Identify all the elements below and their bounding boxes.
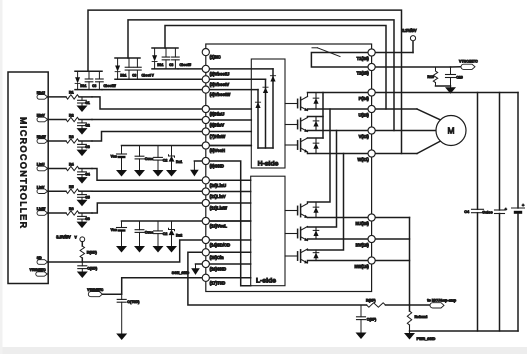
net tag HinW (MCU PWM output 3) bbox=[37, 139, 48, 144]
svg-text:R(SF): R(SF) bbox=[366, 299, 376, 303]
ground (C(SF)) bbox=[356, 333, 367, 340]
ground bbox=[153, 170, 164, 177]
svg-text:(16)GND: (16)GND bbox=[210, 267, 227, 272]
capacitor C3 bbox=[81, 141, 83, 144]
svg-text:Vcc: Vcc bbox=[111, 154, 117, 158]
svg-text:(15)Cin: (15)Cin bbox=[210, 255, 225, 260]
diode Db1 (V) bbox=[117, 58, 119, 65]
wire Q2/Q3 collector riser bbox=[322, 93, 324, 139]
wire row 3 to pin bbox=[92, 132, 206, 142]
pin (13)VccL bbox=[202, 217, 209, 224]
net tag HinU (MCU PWM output 1) bbox=[37, 95, 48, 100]
wire NW line bbox=[308, 260, 410, 262]
microcontroller U2 bbox=[8, 72, 48, 284]
wire P bus (right of pin) bbox=[372, 92, 518, 94]
wire U phase line bbox=[308, 108, 418, 110]
resistor R(SD) bbox=[80, 246, 84, 258]
pin (3)VbootV bbox=[202, 76, 209, 83]
capacitor CbootU bbox=[174, 48, 176, 57]
capacitor C10 bbox=[450, 67, 452, 75]
svg-text:Rshunt: Rshunt bbox=[415, 315, 428, 319]
svg-text:C2: C2 bbox=[85, 124, 90, 128]
svg-text:HinW: HinW bbox=[37, 135, 47, 139]
svg-text:HinV: HinV bbox=[37, 114, 46, 118]
capacitor Celco (electrolytic) bbox=[499, 93, 501, 211]
bootstrap diode DbootV (internal) bbox=[265, 79, 267, 148]
svg-text:C3: C3 bbox=[85, 145, 90, 149]
wire row 5 to pin bbox=[92, 190, 206, 192]
ground SGN_GND (pin9) bbox=[193, 161, 195, 170]
bootstrap diode DbootU (internal) bbox=[272, 69, 274, 148]
svg-text:C(SD): C(SD) bbox=[87, 267, 98, 271]
ground bbox=[116, 246, 127, 253]
pin (8)VccH bbox=[202, 142, 209, 149]
battery VDC bbox=[517, 93, 519, 209]
ground bbox=[116, 170, 127, 177]
svg-text:MICROCONTROLLER: MICROCONTROLLER bbox=[19, 117, 29, 228]
svg-text:(5)HinU: (5)HinU bbox=[210, 112, 225, 117]
diode Db1 (W) bbox=[77, 71, 79, 77]
svg-text:NU(20): NU(20) bbox=[355, 221, 369, 226]
svg-text:H-side: H-side bbox=[258, 160, 279, 167]
capacitor C2 bbox=[81, 120, 83, 123]
supply terminal 3.3V/5V (top) bbox=[372, 52, 413, 54]
svg-text:C4: C4 bbox=[464, 210, 470, 214]
pin W(21) bbox=[368, 150, 375, 157]
wire motor U lead bbox=[417, 109, 440, 120]
wire pin3 VbootV bbox=[140, 78, 266, 80]
ground bbox=[166, 246, 177, 253]
svg-text:to MCU&op-amp: to MCU&op-amp bbox=[427, 299, 457, 303]
pin P(24) bbox=[368, 89, 375, 96]
svg-text:C(TSD): C(TSD) bbox=[127, 300, 140, 304]
pin (16)GND bbox=[202, 260, 209, 267]
svg-text:C6: C6 bbox=[85, 217, 90, 221]
svg-text:C3: C3 bbox=[169, 63, 173, 67]
svg-text:NV(19): NV(19) bbox=[356, 242, 370, 247]
wire row 5 from MCU bbox=[48, 190, 66, 192]
svg-text:C5: C5 bbox=[85, 195, 90, 199]
svg-text:(14)SD/OD: (14)SD/OD bbox=[210, 243, 230, 248]
wire row 3 from MCU bbox=[48, 140, 66, 142]
capacitor C6 bbox=[81, 213, 83, 216]
svg-text:Dz1: Dz1 bbox=[176, 160, 182, 164]
L-side driver block bbox=[251, 176, 285, 286]
svg-text:Db1: Db1 bbox=[80, 84, 86, 88]
capacitor C(SD) bbox=[81, 262, 83, 266]
wire motor W lead bbox=[417, 141, 440, 153]
svg-text:Cvcc: Cvcc bbox=[145, 157, 153, 161]
svg-text:C10: C10 bbox=[456, 76, 463, 80]
resistor R3 bbox=[66, 139, 79, 143]
ground (row 6 filter) bbox=[77, 222, 88, 229]
svg-text:P(24): P(24) bbox=[359, 96, 370, 101]
wire NV line bbox=[308, 238, 410, 240]
pin (1)NC bbox=[202, 49, 209, 56]
resistor R(SF) bbox=[367, 303, 386, 307]
pin T2(25) bbox=[368, 63, 375, 70]
motor M bbox=[436, 116, 466, 146]
svg-text:(1)NC: (1)NC bbox=[210, 55, 221, 60]
capacitor CbootV bbox=[136, 58, 138, 67]
pin (2)VbootU bbox=[202, 65, 209, 72]
svg-text:HinU: HinU bbox=[37, 91, 46, 95]
wire pin 15 Cin to sense filter bbox=[188, 252, 367, 305]
capacitor C1 bbox=[81, 97, 83, 100]
wire row 4 from MCU bbox=[48, 168, 66, 170]
pin (15)Cin bbox=[202, 249, 209, 256]
ground (row 1 filter) bbox=[77, 106, 88, 113]
wire U riser to Q4 bbox=[308, 109, 331, 202]
capacitor C3 (W) bbox=[88, 71, 90, 79]
resistor R1 bbox=[66, 95, 79, 99]
svg-text:(9)GND: (9)GND bbox=[210, 164, 224, 169]
wire VccH rail from pin 8 bbox=[122, 145, 252, 147]
svg-text:LinV: LinV bbox=[37, 185, 45, 189]
wire pin12 LinW bbox=[206, 202, 251, 204]
capacitor Cvcc bbox=[139, 221, 141, 230]
svg-text:(7)HinW: (7)HinW bbox=[210, 134, 226, 139]
wire row 6 to pin bbox=[92, 203, 206, 213]
ground (row 3 filter) bbox=[77, 150, 88, 157]
wire VccL rail from pin 13 bbox=[122, 220, 251, 222]
wire row 6 from MCU bbox=[48, 212, 66, 214]
bootstrap group V: rails bbox=[115, 57, 140, 59]
svg-text:(13)VccL: (13)VccL bbox=[210, 224, 228, 229]
net tag SD (MCU) bbox=[37, 260, 48, 265]
wire row 3 to filter cap bbox=[79, 140, 92, 142]
wire W riser to Q6 bbox=[308, 154, 344, 251]
pin (11)LinV bbox=[202, 188, 209, 195]
pin NU(20) bbox=[368, 214, 375, 221]
svg-text:M: M bbox=[448, 126, 455, 136]
IGBT Q2 (high-side V) bbox=[285, 117, 319, 132]
zener diode Dz1 bbox=[171, 146, 173, 157]
svg-text:R1: R1 bbox=[69, 91, 74, 95]
svg-text:CbootU: CbootU bbox=[180, 63, 192, 67]
IC package outline bbox=[206, 44, 372, 292]
wire bootstrap bus U (top) bbox=[165, 26, 386, 110]
resistor R4 bbox=[66, 166, 79, 170]
pin (7)HinW bbox=[202, 128, 209, 135]
svg-text:Dz2: Dz2 bbox=[176, 234, 182, 238]
wire NU/NV/NW bus to shunt bbox=[409, 218, 411, 312]
svg-text:(12)LinW: (12)LinW bbox=[210, 206, 228, 211]
IGBT Q5 (low-side V) bbox=[285, 227, 319, 241]
wire row 2 to filter cap bbox=[79, 119, 92, 121]
capacitor C3 (U) bbox=[165, 48, 167, 57]
wire T2 to R10/C10 bbox=[372, 66, 451, 68]
net tag to MCU&op-amp bbox=[410, 304, 431, 306]
wire pin10 LinU bbox=[206, 179, 251, 181]
ground bbox=[166, 170, 177, 177]
resistor R2 bbox=[66, 117, 79, 121]
wire row 6 to filter cap bbox=[79, 212, 92, 214]
wire bootstrap bus W (top) bbox=[88, 10, 402, 153]
wire 3.3V to R(SD) bbox=[81, 242, 83, 246]
svg-text:R2: R2 bbox=[69, 113, 74, 117]
svg-text:(10)LinU: (10)LinU bbox=[210, 183, 227, 188]
wire pin9 GND to L-side bbox=[194, 161, 250, 286]
svg-text:VTSO/NTC: VTSO/NTC bbox=[459, 60, 478, 64]
ground PWR_GND bbox=[404, 333, 415, 340]
ground bbox=[134, 246, 145, 253]
wire bootstrap bus V (top) bbox=[128, 20, 394, 131]
wire row 1 from MCU bbox=[48, 96, 66, 98]
wire R10/C10 bottom rail bbox=[436, 85, 451, 87]
wire T1 loop bbox=[311, 53, 368, 68]
IGBT Q6 (low-side W) bbox=[285, 249, 319, 263]
wire V riser to Q5 bbox=[308, 131, 337, 228]
net tag HinV (MCU PWM output 2) bbox=[37, 117, 48, 122]
ground (row 2 filter) bbox=[77, 128, 88, 135]
IGBT Q3 (high-side W) bbox=[285, 138, 319, 154]
wire row 1 to filter cap bbox=[79, 96, 92, 98]
svg-text:C2: C2 bbox=[163, 232, 168, 236]
wire R(SF) to shunt node bbox=[386, 304, 410, 306]
ground (row 5 filter) bbox=[77, 200, 88, 207]
wire W phase line bbox=[308, 153, 418, 155]
wire pin4 VbootW bbox=[102, 89, 258, 91]
IGBT Q1 (high-side U) bbox=[285, 93, 319, 111]
pin (10)LinU bbox=[202, 177, 209, 184]
svg-text:SD: SD bbox=[37, 256, 42, 260]
svg-text:T2(25): T2(25) bbox=[357, 70, 370, 75]
svg-text:L-side: L-side bbox=[256, 278, 276, 285]
svg-text:R10: R10 bbox=[427, 75, 434, 79]
svg-text:Db1: Db1 bbox=[120, 74, 126, 78]
wire row 4 to pin bbox=[92, 169, 206, 181]
capacitor C(TSD) bbox=[121, 294, 123, 299]
svg-text:Cboot V: Cboot V bbox=[142, 74, 155, 78]
capacitor CbootW bbox=[98, 71, 100, 79]
svg-text:SGN_GND: SGN_GND bbox=[172, 271, 190, 275]
pin (6)HinV bbox=[202, 116, 209, 123]
capacitor C(SF) bbox=[360, 305, 362, 317]
bootstrap diode DbootW (internal) bbox=[257, 90, 259, 148]
resistor R5 bbox=[66, 189, 79, 193]
net tag LinU (MCU PWM output 4) bbox=[37, 166, 48, 171]
wire pin16 GND bbox=[196, 263, 251, 265]
net tag LinW (MCU PWM output 6) bbox=[37, 211, 48, 216]
svg-text:3.3V/5V: 3.3V/5V bbox=[402, 28, 417, 33]
pin U(23) bbox=[368, 105, 375, 112]
pin NV(19) bbox=[368, 235, 375, 242]
capacitor Vcc (electrolytic) bbox=[121, 146, 123, 155]
wire pin8 VccH bbox=[206, 145, 252, 147]
svg-text:C3: C3 bbox=[92, 84, 96, 88]
wire tag to CTSD node bbox=[102, 293, 121, 295]
svg-text:LinU: LinU bbox=[37, 163, 45, 167]
thermistor (internal NTC) bbox=[312, 47, 318, 49]
resistor Rshunt bbox=[407, 311, 411, 325]
svg-text:(11)LinV: (11)LinV bbox=[210, 194, 226, 199]
diode Db1 (U) bbox=[154, 48, 156, 55]
svg-text:+: + bbox=[505, 207, 508, 211]
pin (17)TSD bbox=[202, 274, 209, 281]
svg-text:Vcc: Vcc bbox=[111, 228, 117, 232]
pin (5)HinU bbox=[202, 105, 209, 112]
wire pin13 VccL bbox=[206, 220, 251, 222]
zener diode Dz2 bbox=[171, 221, 173, 230]
svg-text:R6: R6 bbox=[69, 207, 74, 211]
svg-text:VTSD/NTC: VTSD/NTC bbox=[30, 268, 47, 272]
capacitor C2 bbox=[157, 146, 159, 158]
wire row 5 to filter cap bbox=[79, 190, 92, 192]
svg-text:+: + bbox=[522, 203, 525, 207]
pin V(22) bbox=[368, 127, 375, 134]
capacitor Cvcc bbox=[139, 146, 141, 157]
net tag VTSD/NTC (MCU analog input) bbox=[36, 272, 48, 276]
wire pin14 SD/OD bbox=[206, 239, 251, 241]
svg-text:(17)TSD: (17)TSD bbox=[210, 280, 226, 285]
svg-text:R(SD): R(SD) bbox=[87, 251, 98, 255]
svg-text:U(23): U(23) bbox=[358, 112, 369, 117]
svg-text:R5: R5 bbox=[69, 185, 74, 189]
svg-text:NW(18): NW(18) bbox=[355, 264, 370, 269]
wire power ground bus bbox=[410, 330, 519, 332]
svg-text:3.3V/5V: 3.3V/5V bbox=[56, 234, 71, 239]
wire SD net to pin 14 bbox=[48, 240, 206, 262]
bootstrap group W: rails bbox=[75, 70, 102, 72]
wire internal VccH join bbox=[258, 147, 273, 149]
svg-text:CbootW: CbootW bbox=[104, 84, 116, 88]
resistor R10 bbox=[435, 67, 437, 71]
wire pin7 HinW bbox=[206, 131, 252, 133]
svg-text:C1: C1 bbox=[85, 101, 90, 105]
svg-text:R3: R3 bbox=[69, 135, 74, 139]
pin (12)LinW bbox=[202, 199, 209, 206]
svg-text:Celco: Celco bbox=[482, 211, 493, 215]
svg-text:V(22): V(22) bbox=[359, 134, 370, 139]
ground (C(TSD)) bbox=[116, 334, 127, 341]
svg-text:R4: R4 bbox=[69, 162, 74, 166]
svg-text:T1(26): T1(26) bbox=[357, 56, 370, 61]
scan artifact bands bbox=[0, 347, 527, 354]
capacitor C4 bbox=[81, 169, 83, 172]
wire row 2 to pin bbox=[92, 119, 206, 121]
wire row 4 to filter cap bbox=[79, 168, 92, 170]
wire pin5 HinU bbox=[206, 108, 252, 110]
wire pin6 HinV bbox=[206, 119, 252, 121]
IGBT Q4 (low-side U) bbox=[285, 202, 319, 218]
svg-text:(3)VbootV: (3)VbootV bbox=[210, 82, 230, 87]
H-side driver block bbox=[251, 59, 285, 168]
capacitor C3 (V) bbox=[128, 58, 130, 67]
ground (row 4 filter) bbox=[77, 177, 88, 184]
svg-text:Cvcc: Cvcc bbox=[145, 231, 153, 235]
wire pin2 VbootU bbox=[178, 68, 273, 70]
svg-text:C2: C2 bbox=[163, 158, 168, 162]
svg-text:C4: C4 bbox=[85, 173, 90, 177]
pin T1(26) bbox=[368, 49, 375, 56]
wire NU line bbox=[308, 217, 410, 219]
ground (C10) bbox=[450, 86, 452, 87]
capacitor C5 bbox=[81, 191, 83, 194]
svg-text:(2)VbootU: (2)VbootU bbox=[210, 71, 230, 76]
net tag VTSO/NTC bbox=[451, 66, 462, 68]
wire P bus (left of pin) bbox=[308, 92, 372, 94]
svg-text:LinW: LinW bbox=[37, 207, 46, 211]
svg-text:C3: C3 bbox=[132, 74, 136, 78]
pin (9)GND bbox=[202, 157, 209, 164]
wire row 1 to pin bbox=[92, 97, 206, 109]
svg-text:PWR_GND: PWR_GND bbox=[417, 337, 436, 341]
resistor R6 bbox=[66, 211, 79, 215]
capacitor Vcc (electrolytic) bbox=[121, 221, 123, 228]
svg-text:V: V bbox=[75, 235, 78, 239]
ground (C(SD)) bbox=[77, 272, 88, 279]
svg-text:(6)HinV: (6)HinV bbox=[210, 123, 225, 128]
svg-text:(4)VbootW: (4)VbootW bbox=[210, 92, 231, 97]
svg-text:Db1: Db1 bbox=[157, 63, 163, 67]
ground SGN_GND (pin16) bbox=[195, 264, 197, 268]
capacitor C4 bbox=[477, 93, 479, 210]
svg-text:C(SF): C(SF) bbox=[367, 318, 377, 322]
pin (4)VbootW bbox=[202, 86, 209, 93]
pin NW(18) bbox=[368, 257, 375, 264]
wire R(SD) to SD net bbox=[81, 258, 83, 262]
pin (14)SD/OD bbox=[202, 236, 209, 243]
wire V phase line bbox=[308, 130, 437, 132]
wire row 2 from MCU bbox=[48, 119, 66, 121]
svg-text:(8)VccH: (8)VccH bbox=[210, 148, 225, 153]
wire pin11 LinV bbox=[206, 191, 251, 193]
net tag LinV (MCU PWM output 5) bbox=[37, 189, 48, 194]
ground bbox=[134, 170, 145, 177]
svg-text:W(21): W(21) bbox=[358, 157, 370, 162]
ground bbox=[153, 246, 164, 253]
wire CTSD node to pin 17 TSD bbox=[122, 278, 251, 294]
bootstrap group U: rails bbox=[152, 47, 178, 49]
capacitor C2 bbox=[157, 221, 159, 231]
